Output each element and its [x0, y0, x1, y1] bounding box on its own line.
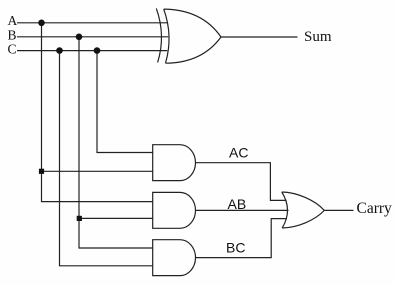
junction dot on A line — [38, 20, 45, 27]
wire AC output to OR gate U5 top input — [196, 163, 287, 201]
junction dot on B vertical — [77, 216, 82, 221]
wire A vertical branch to AND gate U3 (AB) top input — [42, 23, 153, 202]
wire B vertical branch to AND gate U4 (BC) top input — [79, 37, 153, 248]
wire input A horizontal — [17, 22, 167, 24]
wire C vertical branch to AND gate U2 (AC) top input — [97, 51, 153, 153]
svg-text:AC: AC — [229, 144, 248, 160]
wire BC output to OR gate U5 bottom input — [196, 219, 288, 258]
wire C vertical branch to AND gate U4 (BC) bottom input — [60, 51, 153, 266]
wire B branch to AND gate U3 (AB) bottom input — [79, 217, 152, 219]
svg-text:C: C — [8, 42, 17, 57]
and gate U4 (BC) — [153, 240, 196, 276]
svg-text:Carry: Carry — [357, 200, 393, 217]
svg-text:B: B — [8, 28, 17, 43]
svg-text:Sum: Sum — [304, 29, 332, 45]
and gate U2 (AC) — [153, 145, 196, 181]
and gate U3 (AB) — [153, 192, 196, 228]
wire XOR output to Sum — [221, 36, 298, 38]
or gate U5 (Carry) — [282, 192, 325, 228]
wire A branch to AND gate U2 (AC) bottom input — [42, 170, 153, 172]
wire OR output to Carry — [324, 209, 353, 211]
svg-text:A: A — [8, 13, 18, 28]
wire AB output to OR gate U5 middle input — [196, 209, 289, 211]
junction dot on C line (first) — [56, 47, 63, 54]
xor gate U1 (3-input XOR for Sum) — [156, 8, 221, 63]
wire input B horizontal — [17, 36, 168, 38]
junction dot on A vertical — [39, 169, 44, 174]
junction dot on B line — [76, 34, 83, 41]
svg-text:BC: BC — [226, 239, 245, 255]
wire input C horizontal — [17, 50, 167, 52]
junction dot on C line (second) — [94, 47, 101, 54]
svg-text:AB: AB — [228, 196, 247, 212]
